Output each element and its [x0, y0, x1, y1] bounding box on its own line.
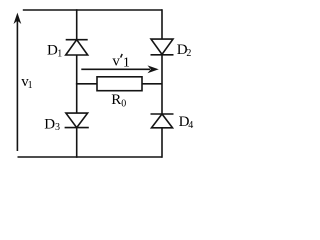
- diode D2: [151, 39, 174, 55]
- wire right edge middle (D2 to D4): [161, 55, 163, 114]
- label v1: [21, 74, 32, 91]
- svg-text:R: R: [111, 92, 121, 108]
- svg-text:3: 3: [55, 122, 60, 133]
- wire right edge lower (D4 to bottom rail): [161, 128, 163, 158]
- wire middle stub left (node A to R0): [76, 83, 97, 85]
- resistor R0: [97, 77, 142, 91]
- diode D1: [66, 40, 88, 55]
- label D3: [44, 117, 60, 133]
- diode D4: [151, 114, 174, 128]
- svg-text:D: D: [44, 117, 55, 133]
- svg-text:4: 4: [188, 120, 193, 131]
- label D4: [179, 114, 194, 131]
- voltage arrow v'1: [81, 66, 157, 72]
- svg-text:2: 2: [186, 48, 191, 59]
- wire branch A upper (top rail to D1): [76, 9, 78, 40]
- label R0: [111, 92, 126, 109]
- wire branch A middle (D1 to D3): [76, 55, 78, 113]
- wire bottom rail: [18, 156, 163, 158]
- svg-text:1: 1: [123, 56, 130, 71]
- label v'1: [112, 54, 129, 71]
- label D2: [177, 42, 192, 59]
- wire top rail: [23, 9, 162, 11]
- wire middle stub right (R0 to node B): [142, 83, 162, 85]
- diode D3: [65, 113, 89, 128]
- svg-text:1: 1: [28, 80, 33, 91]
- label D1: [47, 42, 62, 59]
- svg-text:1: 1: [57, 48, 62, 59]
- svg-text:0: 0: [121, 98, 126, 109]
- wire right edge upper (top rail to D2): [161, 9, 163, 39]
- wire branch A lower (D3 to bottom rail): [76, 128, 78, 158]
- voltage source arrow v1: [15, 14, 21, 151]
- svg-text:v: v: [112, 54, 120, 70]
